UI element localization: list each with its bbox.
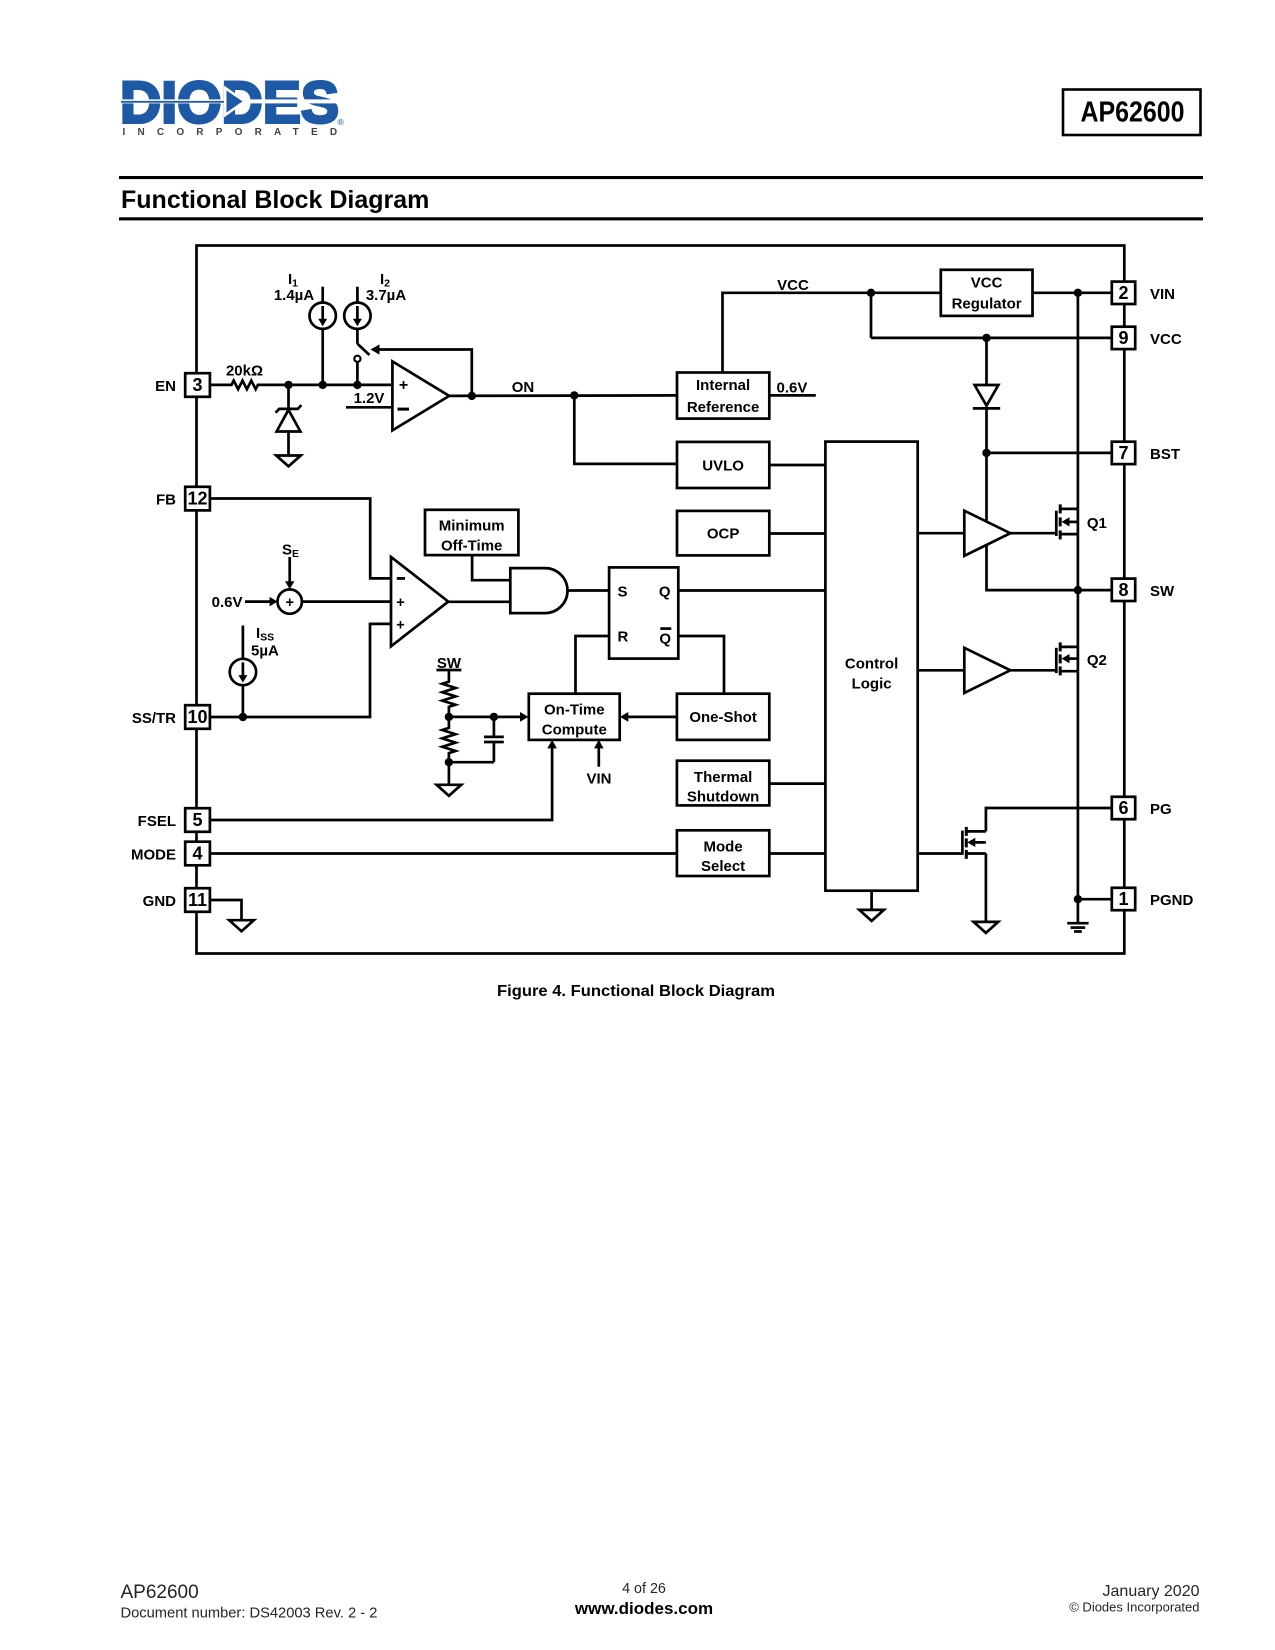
svg-text:4 of 26: 4 of 26 [622,1581,666,1597]
svg-text:BST: BST [1150,446,1180,463]
wire SS/TR to error amp lower plus [210,624,391,717]
svg-text:FB: FB [156,492,176,509]
pin 1 PGND box [1112,888,1135,910]
wire MODE to mode select [210,852,677,855]
wire contact to EN node [356,362,359,385]
wire arrow SE into summing node [285,557,294,589]
transistor Q2 [1056,642,1078,675]
svg-text:3.7µA: 3.7µA [366,287,406,304]
svg-text:PGND: PGND [1150,892,1194,909]
svg-text:PG: PG [1150,801,1172,818]
svg-text:VIN: VIN [586,770,611,787]
svg-text:5µA: 5µA [251,643,279,660]
wire control logic to PG fet gate [918,852,963,855]
comparator minus sign [398,408,410,411]
svg-text:Q2: Q2 [1087,652,1107,669]
resistor R1 vertical [442,670,455,717]
svg-text:Q: Q [659,630,671,647]
wire comparator feedback to switch [379,350,472,396]
AND gate [510,568,567,613]
current source I2 [344,287,370,344]
wire mode select to control logic [769,852,825,855]
wire internal reference 0.6V output [769,394,816,397]
wire UVLO to control logic [769,464,825,467]
wire 1.2V reference into minus input [346,406,392,409]
svg-text:10: 10 [187,707,207,727]
svg-text:FSEL: FSEL [138,813,176,830]
svg-text:INCORPORATED: INCORPORATED [123,127,350,138]
wire FSEL to on-time compute [210,747,552,821]
wire SW node to driver return [987,545,1078,590]
driver U3 for Q1 [964,511,1010,556]
wire FB to error amp minus [210,499,391,579]
wire latch Q to control logic [678,589,825,592]
node EN junction 2 [319,381,327,389]
driver U4 for Q2 [964,648,1010,693]
node divider bottom [445,758,453,766]
box On-Time Compute [529,694,620,740]
svg-text:+: + [285,595,293,611]
svg-text:VIN: VIN [1150,286,1175,303]
svg-text:12: 12 [187,489,207,509]
transistor PG fet [962,827,986,859]
wire capacitor bottom to divider bottom [449,761,494,764]
svg-text:www.diodes.com: www.diodes.com [574,1599,713,1618]
wire SW underline [436,669,461,672]
wire arrow VIN into on-time compute [594,740,604,767]
svg-text:+: + [396,595,404,611]
svg-text:4: 4 [192,844,202,864]
wire Q1 source to SW node [1077,534,1080,590]
pin 8 SW box [1112,579,1135,601]
wire AND to latch S [568,589,610,592]
svg-text:SS/TR: SS/TR [132,710,176,727]
svg-text:UVLO: UVLO [702,458,744,475]
wire divider bottom to ground [448,762,451,785]
wire Minimum Off-Time to AND gate [472,555,510,580]
wire ON to internal reference [449,394,677,397]
comparator U1 triangle [392,361,449,430]
svg-text:ON: ON [512,379,535,396]
summing node SE circle [278,589,302,613]
ground below PG fet [974,922,999,933]
switch contact [354,356,360,362]
wire arrow 0.6V into summing node [245,597,278,606]
svg-text:7: 7 [1118,443,1128,463]
svg-text:Regulator: Regulator [952,296,1022,313]
current source ISS [230,626,256,718]
svg-text:6: 6 [1118,798,1128,818]
box Control Logic [825,442,917,891]
ground below divider [437,785,462,796]
box Thermal Shutdown [677,761,769,806]
svg-text:1: 1 [1118,889,1128,909]
svg-text:One-Shot: One-Shot [689,709,757,726]
node VCC junction [867,289,875,297]
svg-text:Reference: Reference [687,399,760,416]
svg-text:2: 2 [1118,283,1128,303]
svg-text:R: R [618,629,629,646]
svg-text:Q1: Q1 [1087,515,1107,532]
earth ground below PGND node [1067,899,1088,931]
svg-text:EN: EN [155,378,176,395]
wire OCP to control logic [769,532,825,535]
pin 7 BST box [1112,442,1135,464]
node diode top junction [982,334,990,342]
switch blade [357,344,369,355]
pin 12 FB box [185,487,210,511]
node divider mid [445,713,453,721]
svg-text:5: 5 [192,810,202,830]
box Minimum Off-Time [425,510,518,555]
box Internal Reference [677,373,769,419]
svg-text:S: S [618,583,628,600]
svg-text:Thermal: Thermal [694,769,752,786]
wire control logic to Q1 driver [918,532,965,535]
box OCP [677,511,769,556]
node EN junction 3 [353,381,361,389]
svg-text:Document number: DS42003 Rev.: Document number: DS42003 Rev. 2 - 2 [121,1606,378,1622]
ground at GND pin [229,920,254,931]
SR latch box [609,567,678,658]
svg-text:Minimum: Minimum [439,518,505,535]
error amp minus sign [397,577,405,580]
pin 5 FSEL box [185,808,210,832]
svg-text:Off-Time: Off-Time [441,538,502,555]
current source I1 [310,287,336,385]
section title rule bottom [119,217,1203,220]
svg-text:Internal: Internal [696,377,750,394]
svg-text:Compute: Compute [542,722,607,739]
svg-text:VCC: VCC [777,277,809,294]
svg-text:+: + [399,377,408,394]
wire BST junction to pin 7 [987,452,1112,455]
wire Q2 source to PGND node [1077,671,1080,899]
pin 4 MODE box [185,842,210,866]
arrow into on-time compute right [620,712,628,722]
svg-text:On-Time: On-Time [544,702,605,719]
wire EN node to comparator [289,384,393,387]
svg-text:1.4µA: 1.4µA [274,287,314,304]
box VCC Regulator [941,270,1033,316]
svg-text:Select: Select [701,858,745,875]
wire SW node down to Q2 drain [1077,590,1080,647]
wire Q2 driver to gate [1010,669,1056,672]
wire VCC row to pin 9 [871,337,1112,340]
pin 3 EN box [185,373,210,397]
svg-text:January 2020: January 2020 [1103,1583,1200,1600]
pin 10 SS/TR box [185,705,210,729]
svg-text:© Diodes Incorporated: © Diodes Incorporated [1069,1600,1199,1615]
node BST junction [982,449,990,457]
outer block border [197,246,1125,954]
wire PG fet source to ground [985,854,988,922]
node PGND junction [1074,895,1082,903]
svg-text:OCP: OCP [707,526,740,543]
svg-text:0.6V: 0.6V [777,380,808,397]
svg-text:3: 3 [192,375,202,395]
node SW junction [1074,586,1082,594]
wire VIN rail to Q1 drain [1077,293,1080,509]
svg-text:VCC: VCC [1150,331,1182,348]
node SS/TR junction [239,713,247,721]
wire SW node to pin 8 [1078,589,1112,592]
wire one-shot to on-time compute [627,716,677,719]
svg-text:11: 11 [188,890,207,910]
pin 9 VCC box [1112,327,1135,349]
node ON junction [570,391,578,399]
wire divider tap to on-time compute [449,716,521,719]
svg-text:20kΩ: 20kΩ [226,362,263,379]
svg-text:Logic: Logic [852,675,892,692]
wire VCC junction down to VCC pin row [870,293,873,338]
svg-text:VCC: VCC [971,275,1003,292]
logo DIODES wordmark [118,71,349,138]
svg-text:8: 8 [1118,580,1128,600]
svg-text:ISS: ISS [256,625,274,644]
ground below control logic [859,910,884,921]
bootstrap diode D2 [973,338,1000,453]
box One-Shot [677,694,769,740]
arrow into on-time compute left [520,712,528,722]
part number box AP62600 [1063,90,1201,136]
svg-text:GND: GND [143,893,177,910]
svg-text:9: 9 [1118,328,1128,348]
svg-text:Figure 4. Functional Block Dia: Figure 4. Functional Block Diagram [497,983,775,1000]
pin 11 GND box [185,888,210,912]
svg-text:Functional Block Diagram: Functional Block Diagram [121,186,429,214]
wire GND pin to ground [210,900,242,920]
node EN junction 1 [284,381,292,389]
node comparator output [468,392,476,400]
wire PGND node to pin 1 [1078,898,1112,901]
node VIN junction [1074,289,1082,297]
transistor Q1 [1056,504,1078,539]
svg-text:Mode: Mode [704,838,743,855]
svg-text:®: ® [338,117,345,127]
svg-text:1.2V: 1.2V [354,390,385,407]
wire Q1 driver to gate [1010,532,1056,535]
pin 2 VIN box [1112,282,1135,304]
node capacitor top [490,713,498,721]
wire latch Qbar to one-shot [678,636,724,694]
wire error amp to AND gate [448,600,510,603]
wire ON to UVLO [574,395,677,464]
wire thermal shutdown to control logic [769,782,825,785]
svg-text:AP62600: AP62600 [1081,97,1185,129]
svg-text:0.6V: 0.6V [212,594,243,611]
wire VCC rail from internal reference to regulator [723,293,941,373]
wire summing node to error amp plus [302,600,391,603]
capacitor C1 [484,717,504,762]
svg-text:Q: Q [659,583,671,600]
wire PG fet drain to pin 6 [986,808,1112,831]
box UVLO [677,442,769,488]
svg-text:SW: SW [1150,583,1175,600]
wire on-time compute output to latch R [576,636,610,694]
svg-text:Control: Control [845,655,898,672]
pin 6 PG box [1112,797,1135,819]
error amplifier U2 triangle [391,557,448,646]
svg-text:Shutdown: Shutdown [687,788,759,805]
wire control logic to Q2 driver [918,669,965,672]
svg-text:+: + [396,618,404,634]
arrow feedback into switch [371,344,380,354]
ground below zener [276,456,301,467]
section title rule top [119,176,1203,179]
box Mode Select [677,830,769,876]
wire control logic to ground [870,891,873,910]
resistor R2 vertical [442,717,455,762]
svg-text:AP62600: AP62600 [121,1582,199,1603]
resistor 20k zigzag with EN wire [210,381,289,390]
wire VCC regulator to VIN pin [1033,291,1112,294]
svg-text:MODE: MODE [131,847,176,864]
wire BST junction down to Q1 driver [985,453,988,522]
zener diode D1 [276,385,302,456]
arrow FSEL into on-time compute [547,740,557,749]
